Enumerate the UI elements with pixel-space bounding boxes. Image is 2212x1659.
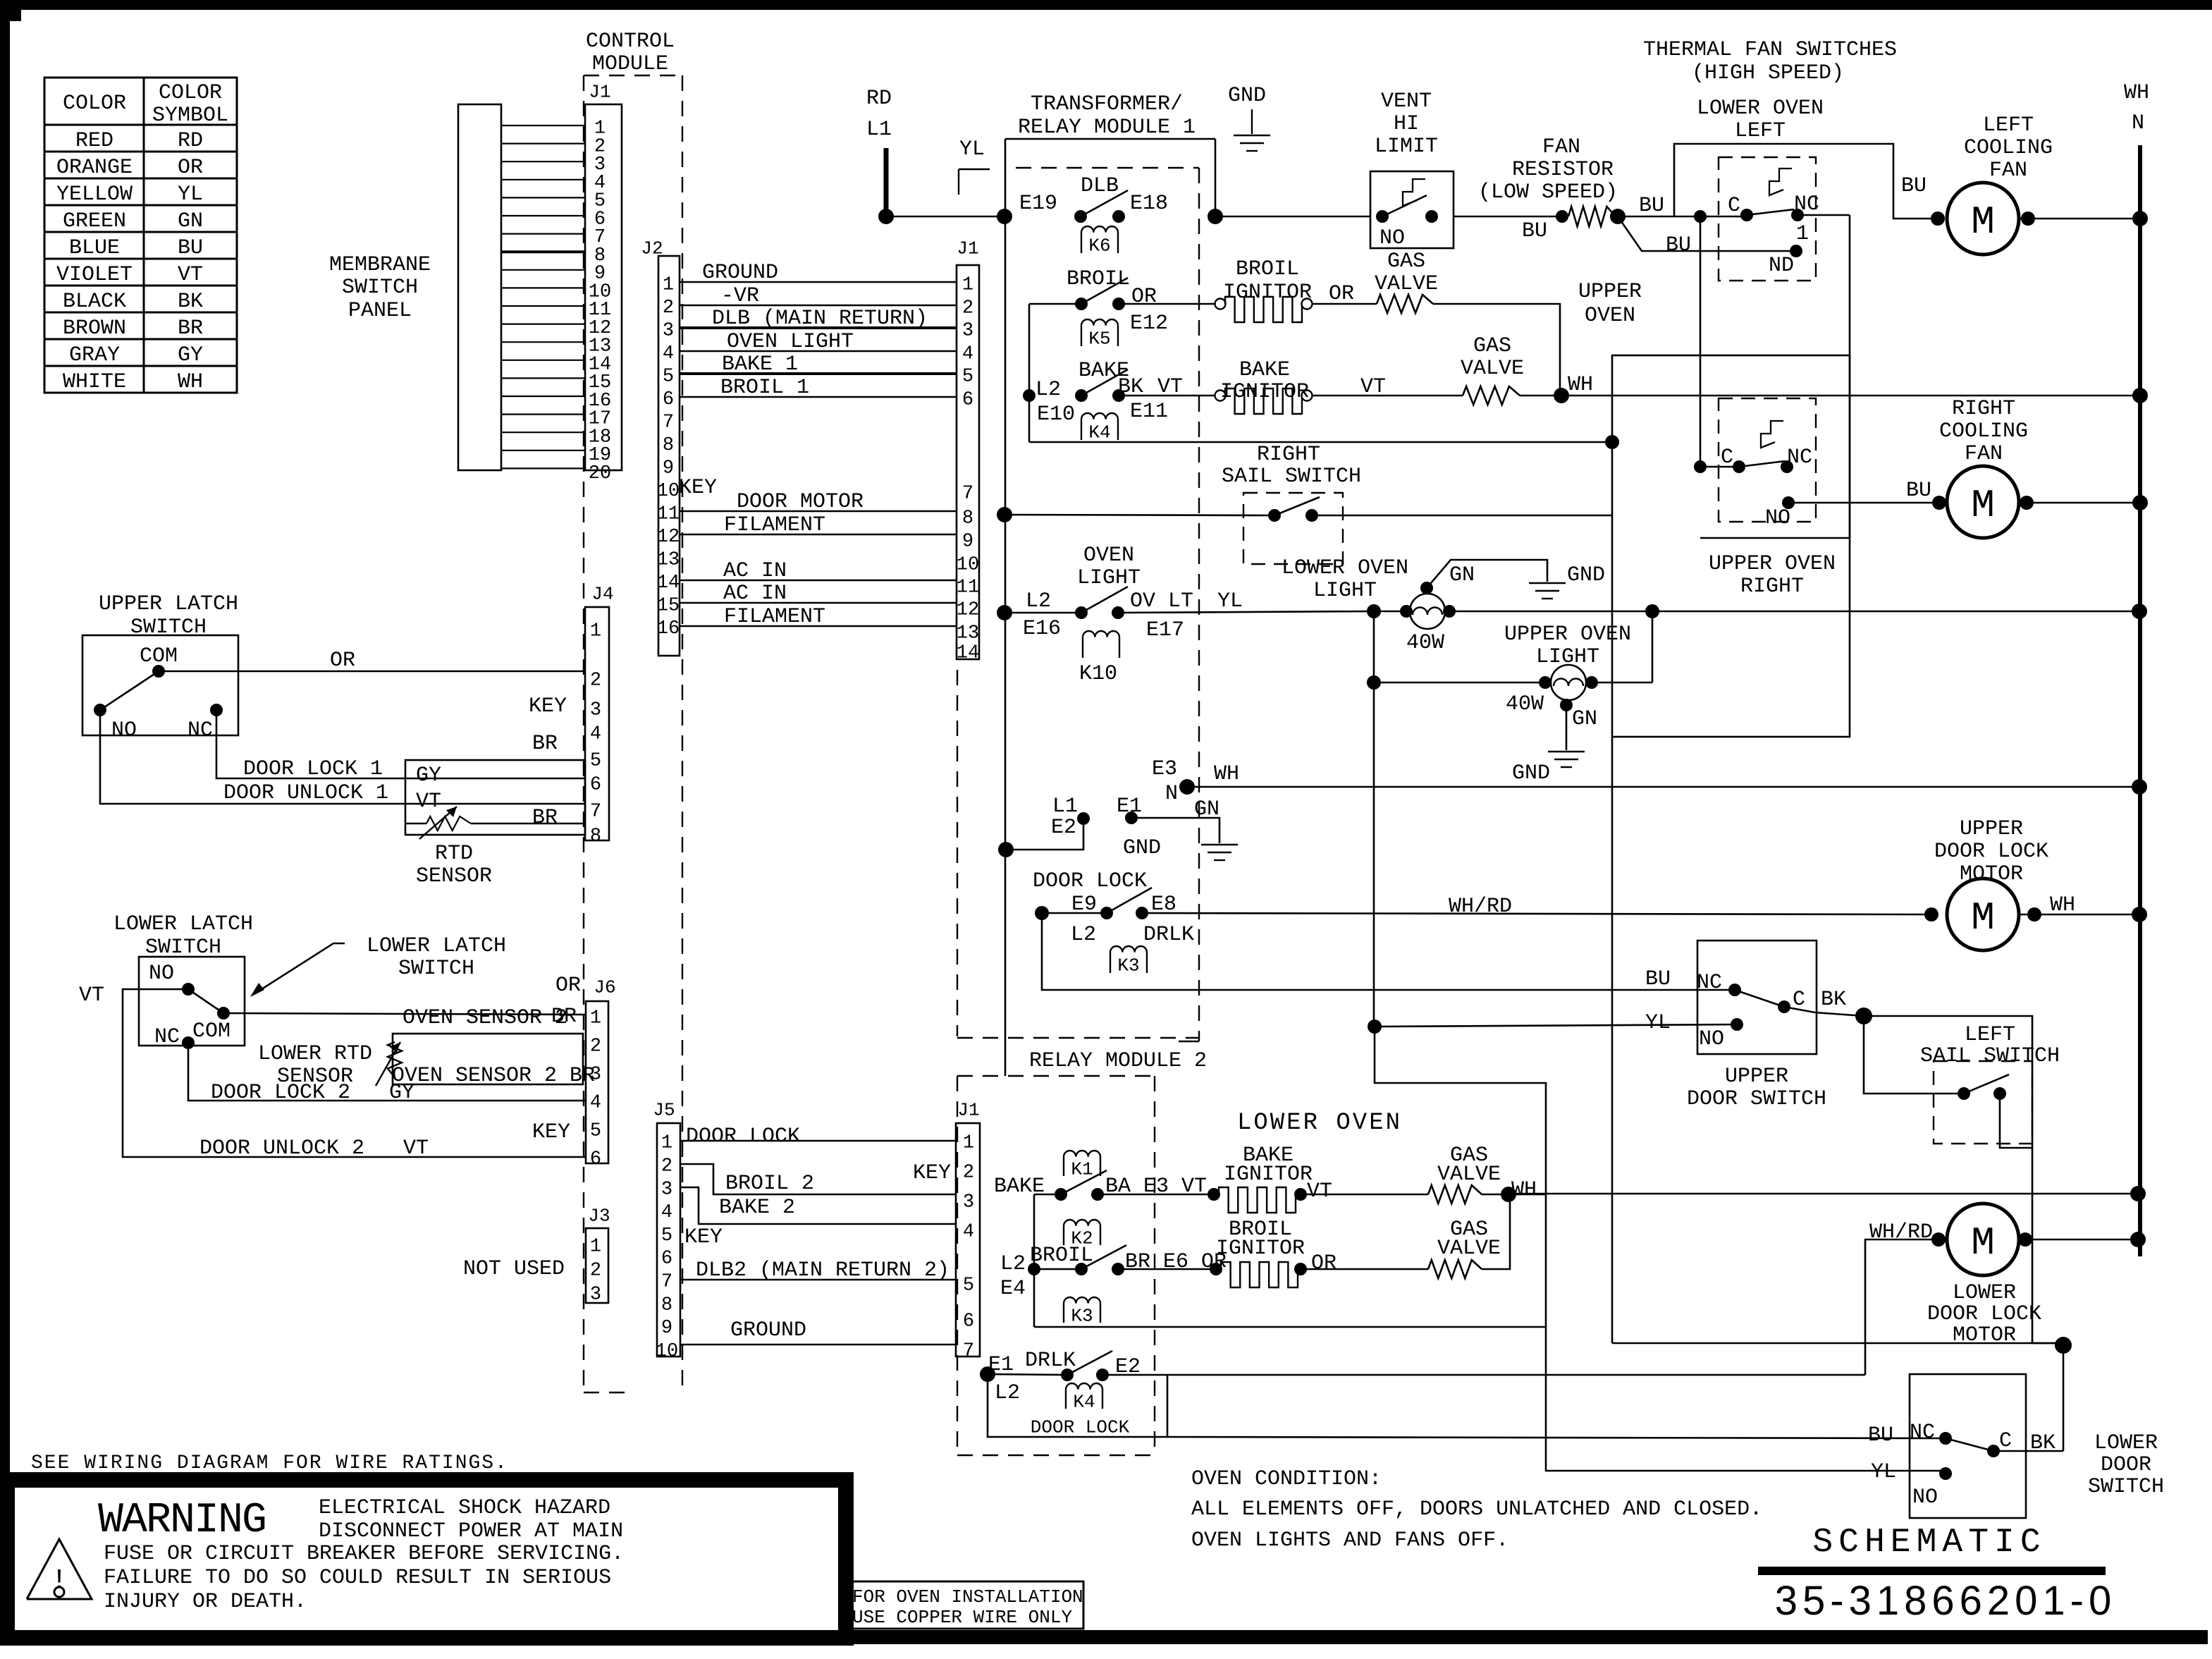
svg-text:DOOR MOTOR: DOOR MOTOR (737, 490, 864, 514)
svg-text:BK: BK (178, 290, 203, 314)
svg-text:K1: K1 (1071, 1158, 1093, 1180)
svg-text:VT: VT (1307, 1180, 1332, 1204)
svg-text:20: 20 (589, 463, 611, 484)
svg-text:RD: RD (866, 87, 892, 111)
svg-text:TRANSFORMER/: TRANSFORMER/ (1031, 92, 1183, 116)
svg-text:BR: BR (532, 806, 558, 830)
svg-text:BAKE 2: BAKE 2 (719, 1196, 795, 1220)
svg-text:K3: K3 (1071, 1305, 1093, 1326)
svg-text:1: 1 (590, 1008, 601, 1029)
svg-text:3: 3 (663, 321, 674, 342)
svg-text:VALVE: VALVE (1437, 1237, 1501, 1261)
svg-text:J3: J3 (588, 1205, 610, 1226)
svg-text:UPPER: UPPER (1578, 280, 1642, 304)
svg-text:E16: E16 (1023, 617, 1061, 641)
svg-text:2: 2 (661, 1156, 672, 1177)
svg-text:NO: NO (149, 962, 174, 986)
svg-text:5: 5 (590, 751, 601, 772)
svg-text:ELECTRICAL SHOCK HAZARD: ELECTRICAL SHOCK HAZARD (319, 1496, 610, 1520)
svg-text:6: 6 (590, 775, 601, 796)
svg-text:DOOR LOCK 1: DOOR LOCK 1 (243, 757, 383, 781)
svg-text:VT: VT (416, 790, 441, 814)
svg-text:BU: BU (1906, 479, 1931, 503)
svg-text:5: 5 (963, 1275, 974, 1297)
svg-text:E12: E12 (1130, 312, 1168, 336)
svg-text:L2: L2 (1036, 378, 1061, 402)
svg-text:-VR: -VR (721, 284, 759, 308)
svg-text:NC: NC (1910, 1421, 1935, 1445)
svg-text:7: 7 (962, 484, 973, 505)
svg-text:E2: E2 (1051, 816, 1076, 840)
svg-text:AC IN: AC IN (723, 559, 787, 583)
svg-text:YL: YL (959, 137, 985, 161)
svg-text:DOOR LOCK: DOOR LOCK (1927, 1302, 2041, 1326)
svg-text:UPPER OVEN: UPPER OVEN (1504, 623, 1631, 647)
svg-text:UPPER: UPPER (1960, 817, 2023, 841)
svg-text:BROIL: BROIL (1236, 257, 1299, 281)
svg-text:3: 3 (661, 1179, 672, 1200)
svg-text:L2: L2 (995, 1381, 1020, 1405)
svg-text:BLACK: BLACK (63, 290, 126, 314)
svg-text:GAS: GAS (1473, 334, 1511, 358)
svg-text:KEY: KEY (679, 476, 717, 500)
svg-text:M: M (1971, 895, 1995, 941)
svg-text:USE COPPER WIRE ONLY: USE COPPER WIRE ONLY (852, 1607, 1072, 1628)
svg-text:(HIGH SPEED): (HIGH SPEED) (1692, 61, 1844, 85)
svg-text:K6: K6 (1088, 235, 1110, 256)
svg-text:1: 1 (590, 1237, 601, 1258)
svg-text:BR: BR (178, 317, 203, 341)
svg-text:6: 6 (590, 1149, 601, 1170)
svg-text:KEY: KEY (913, 1161, 951, 1185)
svg-text:NOT USED: NOT USED (463, 1257, 565, 1281)
svg-text:GREEN: GREEN (63, 209, 126, 233)
svg-text:2: 2 (590, 671, 601, 692)
svg-text:1: 1 (661, 1133, 672, 1154)
svg-text:6: 6 (661, 1249, 672, 1270)
svg-text:GN: GN (1194, 797, 1219, 821)
svg-text:NC: NC (188, 718, 213, 742)
svg-text:OVEN SENSOR 2: OVEN SENSOR 2 (403, 1006, 567, 1030)
svg-text:DOOR UNLOCK 1: DOOR UNLOCK 1 (223, 781, 388, 805)
svg-text:J2: J2 (641, 238, 663, 259)
svg-text:OR: OR (1131, 285, 1157, 309)
svg-text:NO: NO (1380, 226, 1405, 250)
svg-text:DLB (MAIN RETURN): DLB (MAIN RETURN) (712, 307, 928, 331)
svg-text:GND: GND (1123, 836, 1161, 860)
svg-text:YL: YL (1871, 1460, 1896, 1484)
svg-text:UPPER OVEN: UPPER OVEN (1709, 552, 1836, 576)
svg-text:DOOR LOCK: DOOR LOCK (1033, 869, 1147, 893)
svg-text:7: 7 (963, 1341, 974, 1362)
svg-text:1: 1 (663, 275, 674, 296)
svg-text:UPPER LATCH: UPPER LATCH (99, 592, 238, 616)
svg-text:RED: RED (75, 129, 113, 153)
svg-text:LOWER RTD: LOWER RTD (258, 1042, 372, 1066)
svg-text:IGNITOR: IGNITOR (1224, 1163, 1313, 1187)
svg-text:2: 2 (962, 298, 973, 319)
svg-text:RIGHT: RIGHT (1740, 575, 1804, 599)
svg-text:COM: COM (192, 1020, 231, 1043)
svg-text:BROWN: BROWN (63, 317, 126, 341)
svg-text:GN: GN (178, 209, 203, 233)
svg-text:1: 1 (962, 275, 973, 296)
svg-text:LOWER: LOWER (1953, 1281, 2016, 1305)
svg-text:WH/RD: WH/RD (1449, 895, 1512, 919)
svg-text:OR: OR (1311, 1251, 1337, 1275)
svg-text:GROUND: GROUND (730, 1318, 806, 1342)
svg-text:BR: BR (551, 1005, 577, 1029)
svg-text:9: 9 (661, 1318, 672, 1339)
svg-text:GY: GY (389, 1081, 414, 1105)
svg-text:5: 5 (663, 367, 674, 388)
svg-text:J1: J1 (957, 1099, 979, 1120)
svg-text:GND: GND (1567, 563, 1605, 587)
svg-text:BU: BU (1639, 194, 1664, 218)
svg-text:GND: GND (1228, 84, 1266, 108)
svg-text:KEY: KEY (532, 1120, 570, 1144)
svg-text:9: 9 (663, 458, 674, 479)
svg-text:INJURY OR DEATH.: INJURY OR DEATH. (104, 1590, 307, 1614)
svg-text:DOOR SWITCH: DOOR SWITCH (1687, 1087, 1826, 1111)
svg-text:IGNITOR: IGNITOR (1223, 281, 1312, 305)
svg-text:VALVE: VALVE (1461, 357, 1524, 381)
svg-text:8: 8 (661, 1294, 672, 1316)
svg-text:ALL ELEMENTS OFF, DOORS UNLATC: ALL ELEMENTS OFF, DOORS UNLATCHED AND CL… (1191, 1498, 1762, 1522)
svg-text:YL: YL (1217, 589, 1243, 613)
svg-text:LEFT: LEFT (1983, 114, 2034, 137)
svg-text:5: 5 (962, 367, 973, 388)
svg-text:DOOR LOCK: DOOR LOCK (1934, 840, 2048, 864)
svg-text:K4: K4 (1088, 422, 1110, 443)
svg-text:BROIL 1: BROIL 1 (720, 376, 809, 400)
svg-text:SEE WIRING DIAGRAM FOR WIRE RA: SEE WIRING DIAGRAM FOR WIRE RATINGS. (31, 1452, 508, 1474)
svg-text:BK: BK (2030, 1431, 2056, 1455)
svg-text:GND: GND (1512, 761, 1550, 785)
svg-text:L2: L2 (1026, 589, 1051, 613)
svg-text:BROIL 2: BROIL 2 (725, 1172, 814, 1196)
svg-text:DOOR LOCK: DOOR LOCK (1031, 1416, 1130, 1438)
svg-text:KEY: KEY (684, 1225, 723, 1249)
svg-text:13: 13 (657, 550, 680, 571)
svg-text:WHITE: WHITE (63, 370, 126, 394)
svg-text:LOWER LATCH: LOWER LATCH (367, 934, 506, 958)
svg-text:3: 3 (962, 321, 973, 342)
svg-text:YELLOW: YELLOW (56, 183, 133, 207)
svg-text:1: 1 (963, 1133, 974, 1154)
svg-text:M: M (1971, 1220, 1995, 1266)
svg-text:IGNITOR: IGNITOR (1220, 380, 1309, 404)
svg-text:THERMAL FAN SWITCHES: THERMAL FAN SWITCHES (1643, 38, 1897, 62)
svg-text:FAN: FAN (1542, 135, 1580, 159)
svg-text:UPPER: UPPER (1725, 1065, 1788, 1089)
svg-text:ND: ND (1769, 254, 1794, 278)
svg-text:BLUE: BLUE (69, 236, 120, 260)
svg-text:MODULE: MODULE (592, 52, 668, 76)
svg-text:HI: HI (1394, 112, 1419, 136)
svg-text:E17: E17 (1146, 618, 1184, 642)
svg-text:LIGHT: LIGHT (1313, 579, 1377, 603)
svg-text:NO: NO (1765, 506, 1790, 530)
svg-text:4: 4 (661, 1202, 672, 1223)
svg-text:KEY: KEY (529, 694, 567, 718)
svg-text:E19: E19 (1019, 192, 1057, 216)
svg-text:40W: 40W (1406, 631, 1444, 655)
svg-text:RESISTOR: RESISTOR (1512, 158, 1614, 182)
svg-text:RELAY MODULE 2: RELAY MODULE 2 (1029, 1049, 1207, 1073)
svg-text:FAILURE TO DO SO COULD RESULT: FAILURE TO DO SO COULD RESULT IN SERIOUS (104, 1566, 611, 1590)
svg-text:WARNING: WARNING (98, 1497, 266, 1545)
svg-text:VT: VT (79, 984, 104, 1008)
svg-text:BU: BU (178, 236, 203, 260)
svg-text:OVEN SENSOR 2 BR: OVEN SENSOR 2 BR (392, 1064, 595, 1088)
svg-text:DOOR: DOOR (2101, 1453, 2151, 1477)
svg-text:FAN: FAN (1965, 442, 2003, 466)
svg-text:L1: L1 (1052, 795, 1078, 819)
svg-text:WH: WH (2124, 81, 2149, 105)
svg-text:RELAY MODULE 1: RELAY MODULE 1 (1018, 116, 1196, 140)
svg-text:K5: K5 (1088, 328, 1110, 349)
svg-text:SWITCH: SWITCH (2088, 1475, 2164, 1499)
svg-text:4: 4 (590, 724, 601, 745)
svg-text:COLOR: COLOR (159, 81, 222, 105)
svg-text:14: 14 (957, 643, 979, 664)
svg-text:LIGHT: LIGHT (1077, 566, 1141, 590)
svg-text:NC: NC (1787, 446, 1812, 470)
svg-text:WH: WH (1214, 762, 1239, 786)
svg-text:SWITCH: SWITCH (342, 276, 418, 300)
svg-text:NO: NO (111, 718, 137, 742)
svg-text:40W: 40W (1506, 692, 1544, 716)
svg-text:DOOR LOCK: DOOR LOCK (686, 1125, 800, 1149)
svg-text:LIMIT: LIMIT (1375, 135, 1438, 159)
svg-text:DOOR UNLOCK 2: DOOR UNLOCK 2 (199, 1137, 364, 1161)
svg-text:10: 10 (657, 481, 680, 502)
svg-text:LOWER OVEN: LOWER OVEN (1697, 97, 1824, 121)
svg-text:7: 7 (661, 1272, 672, 1293)
svg-text:2: 2 (590, 1261, 601, 1282)
svg-text:4: 4 (663, 343, 674, 365)
svg-text:WH: WH (1568, 373, 1593, 397)
svg-text:4: 4 (590, 1093, 601, 1114)
svg-text:M: M (1971, 483, 1995, 528)
svg-text:COOLING: COOLING (1964, 136, 2053, 160)
svg-text:12: 12 (657, 527, 680, 548)
svg-text:BK: BK (1821, 988, 1846, 1012)
svg-text:VT: VT (178, 263, 203, 287)
svg-text:8: 8 (962, 508, 973, 529)
svg-text:WH: WH (2050, 893, 2075, 917)
svg-text:BU: BU (1522, 219, 1547, 243)
svg-text:K4: K4 (1073, 1391, 1095, 1412)
svg-text:RIGHT: RIGHT (1257, 443, 1320, 467)
svg-text:SCHEMATIC: SCHEMATIC (1812, 1524, 2046, 1562)
svg-text:OVEN LIGHTS AND FANS OFF.: OVEN LIGHTS AND FANS OFF. (1191, 1529, 1509, 1553)
svg-text:OVEN: OVEN (1585, 304, 1635, 328)
svg-text:SYMBOL: SYMBOL (152, 104, 228, 128)
svg-text:OR: OR (330, 649, 355, 673)
svg-text:COLOR: COLOR (63, 92, 126, 116)
svg-text:C: C (1999, 1429, 2012, 1453)
svg-text:16: 16 (657, 618, 680, 639)
svg-text:LOWER OVEN: LOWER OVEN (1282, 556, 1408, 580)
svg-text:SAIL SWITCH: SAIL SWITCH (1920, 1044, 2060, 1068)
svg-text:LOWER: LOWER (2094, 1431, 2158, 1455)
svg-text:4: 4 (963, 1222, 974, 1243)
svg-text:RD: RD (178, 129, 203, 153)
svg-text:WH/RD: WH/RD (1869, 1220, 1933, 1244)
svg-text:GROUND: GROUND (702, 261, 778, 285)
svg-text:11: 11 (657, 504, 680, 525)
svg-text:VT: VT (403, 1137, 429, 1161)
svg-text:BU: BU (1645, 967, 1671, 991)
svg-text:7: 7 (663, 412, 674, 434)
svg-text:14: 14 (657, 573, 680, 594)
svg-text:MEMBRANE: MEMBRANE (329, 253, 431, 277)
svg-text:BROIL: BROIL (1067, 267, 1130, 291)
svg-text:OR: OR (178, 156, 203, 180)
svg-text:BR: BR (532, 732, 558, 756)
svg-text:VALVE: VALVE (1437, 1163, 1501, 1187)
svg-text:E3: E3 (1152, 757, 1177, 781)
svg-text:J6: J6 (594, 977, 615, 998)
svg-text:6: 6 (963, 1311, 974, 1333)
svg-text:5: 5 (590, 1121, 601, 1142)
svg-text:VT: VT (1360, 375, 1386, 399)
svg-text:13: 13 (957, 623, 979, 644)
svg-text:VIOLET: VIOLET (56, 263, 133, 287)
svg-text:NC: NC (1794, 192, 1819, 216)
svg-text:8: 8 (590, 826, 601, 847)
svg-text:BU: BU (1901, 174, 1927, 198)
svg-text:DLB2 (MAIN RETURN 2): DLB2 (MAIN RETURN 2) (696, 1259, 950, 1282)
svg-text:DISCONNECT POWER AT MAIN: DISCONNECT POWER AT MAIN (319, 1519, 623, 1543)
svg-text:6: 6 (663, 389, 674, 410)
svg-text:K10: K10 (1079, 662, 1117, 686)
svg-text:DLB: DLB (1081, 174, 1119, 198)
svg-text:SENSOR: SENSOR (416, 864, 492, 888)
svg-text:10: 10 (656, 1341, 678, 1362)
svg-text:GN: GN (1572, 707, 1597, 731)
svg-text:L2: L2 (1071, 923, 1096, 947)
svg-text:WH: WH (1511, 1178, 1537, 1202)
svg-text:DRLK: DRLK (1143, 923, 1194, 947)
svg-text:RIGHT: RIGHT (1952, 397, 2015, 421)
svg-text:15: 15 (657, 596, 680, 617)
svg-text:OR: OR (1329, 282, 1354, 306)
svg-text:BU: BU (1666, 233, 1691, 257)
svg-text:J1: J1 (957, 238, 978, 259)
svg-text:2: 2 (663, 298, 674, 319)
svg-text:(LOW SPEED): (LOW SPEED) (1478, 180, 1618, 204)
svg-text:4: 4 (962, 344, 973, 365)
svg-text:SAIL SWITCH: SAIL SWITCH (1222, 465, 1361, 489)
svg-text:OR: OR (555, 974, 581, 998)
svg-text:K3: K3 (1117, 955, 1139, 976)
svg-text:35-31866201-0: 35-31866201-0 (1775, 1578, 2116, 1624)
svg-text:OVEN LIGHT: OVEN LIGHT (727, 330, 854, 354)
svg-text:L1: L1 (866, 118, 892, 142)
svg-text:BAKE: BAKE (1239, 358, 1290, 382)
svg-text:GRAY: GRAY (69, 343, 120, 367)
svg-text:N: N (1165, 782, 1178, 806)
svg-text:10: 10 (957, 555, 979, 576)
svg-text:NC: NC (154, 1025, 180, 1049)
svg-text:E10: E10 (1037, 403, 1075, 427)
svg-text:RTD: RTD (435, 842, 473, 866)
svg-text:MOTOR: MOTOR (1953, 1323, 2016, 1347)
svg-text:CONTROL: CONTROL (586, 30, 675, 54)
svg-text:FAN: FAN (1989, 159, 2027, 183)
svg-text:NC: NC (1697, 971, 1722, 995)
svg-text:5: 5 (661, 1225, 672, 1247)
svg-text:ORANGE: ORANGE (56, 156, 133, 180)
svg-text:BU: BU (1868, 1424, 1893, 1447)
svg-text:3: 3 (590, 1285, 601, 1306)
svg-text:C: C (1728, 194, 1740, 218)
svg-text:11: 11 (957, 577, 979, 599)
svg-text:NO: NO (1699, 1027, 1724, 1051)
svg-text:SWITCH: SWITCH (398, 957, 474, 981)
svg-text:LOWER LATCH: LOWER LATCH (113, 912, 253, 936)
svg-text:GN: GN (1449, 563, 1475, 587)
svg-text:M: M (1971, 200, 1995, 245)
svg-text:LEFT: LEFT (1735, 119, 1786, 143)
svg-text:FILAMENT: FILAMENT (724, 513, 825, 537)
svg-text:PANEL: PANEL (348, 299, 412, 323)
svg-text:3: 3 (590, 700, 601, 721)
svg-text:YL: YL (178, 183, 203, 207)
svg-text:NO: NO (1912, 1486, 1938, 1510)
svg-text:YL: YL (1645, 1011, 1671, 1035)
svg-text:8: 8 (663, 435, 674, 456)
svg-text:3: 3 (963, 1192, 974, 1213)
svg-text:L2: L2 (1000, 1252, 1026, 1276)
svg-text:GY: GY (178, 343, 203, 367)
svg-text:FOR OVEN INSTALLATION: FOR OVEN INSTALLATION (852, 1586, 1083, 1608)
svg-text:BAKE 1: BAKE 1 (722, 353, 798, 377)
svg-text:AC IN: AC IN (723, 582, 787, 606)
svg-text:1: 1 (1796, 222, 1809, 246)
svg-text:7: 7 (590, 802, 601, 823)
svg-text:E4: E4 (1000, 1277, 1026, 1301)
svg-text:COM: COM (140, 644, 178, 668)
svg-text:GAS: GAS (1387, 250, 1425, 274)
svg-text:FUSE OR CIRCUIT BREAKER BEFORE: FUSE OR CIRCUIT BREAKER BEFORE SERVICING… (104, 1542, 624, 1566)
svg-text:2: 2 (963, 1163, 974, 1184)
svg-text:OVEN CONDITION:: OVEN CONDITION: (1191, 1467, 1382, 1491)
svg-text:9: 9 (962, 532, 973, 553)
svg-text:VALVE: VALVE (1375, 272, 1438, 296)
svg-text:COOLING: COOLING (1939, 420, 2028, 443)
svg-text:12: 12 (957, 600, 979, 621)
svg-text:LOWER OVEN: LOWER OVEN (1237, 1110, 1402, 1137)
svg-text:FILAMENT: FILAMENT (724, 605, 825, 629)
svg-text:E11: E11 (1130, 400, 1168, 424)
svg-text:2: 2 (590, 1036, 601, 1058)
svg-text:N: N (2132, 111, 2144, 135)
svg-text:J5: J5 (653, 1099, 675, 1120)
svg-text:WH: WH (178, 370, 203, 394)
svg-text:DOOR LOCK 2: DOOR LOCK 2 (211, 1081, 350, 1105)
svg-text:GY: GY (416, 764, 441, 788)
svg-text:J4: J4 (591, 583, 613, 604)
svg-text:OV LT: OV LT (1130, 589, 1193, 613)
svg-text:IGNITOR: IGNITOR (1216, 1237, 1305, 1261)
svg-text:6: 6 (962, 390, 973, 411)
svg-text:LEFT: LEFT (1965, 1023, 2015, 1047)
svg-text:J1: J1 (589, 81, 610, 102)
